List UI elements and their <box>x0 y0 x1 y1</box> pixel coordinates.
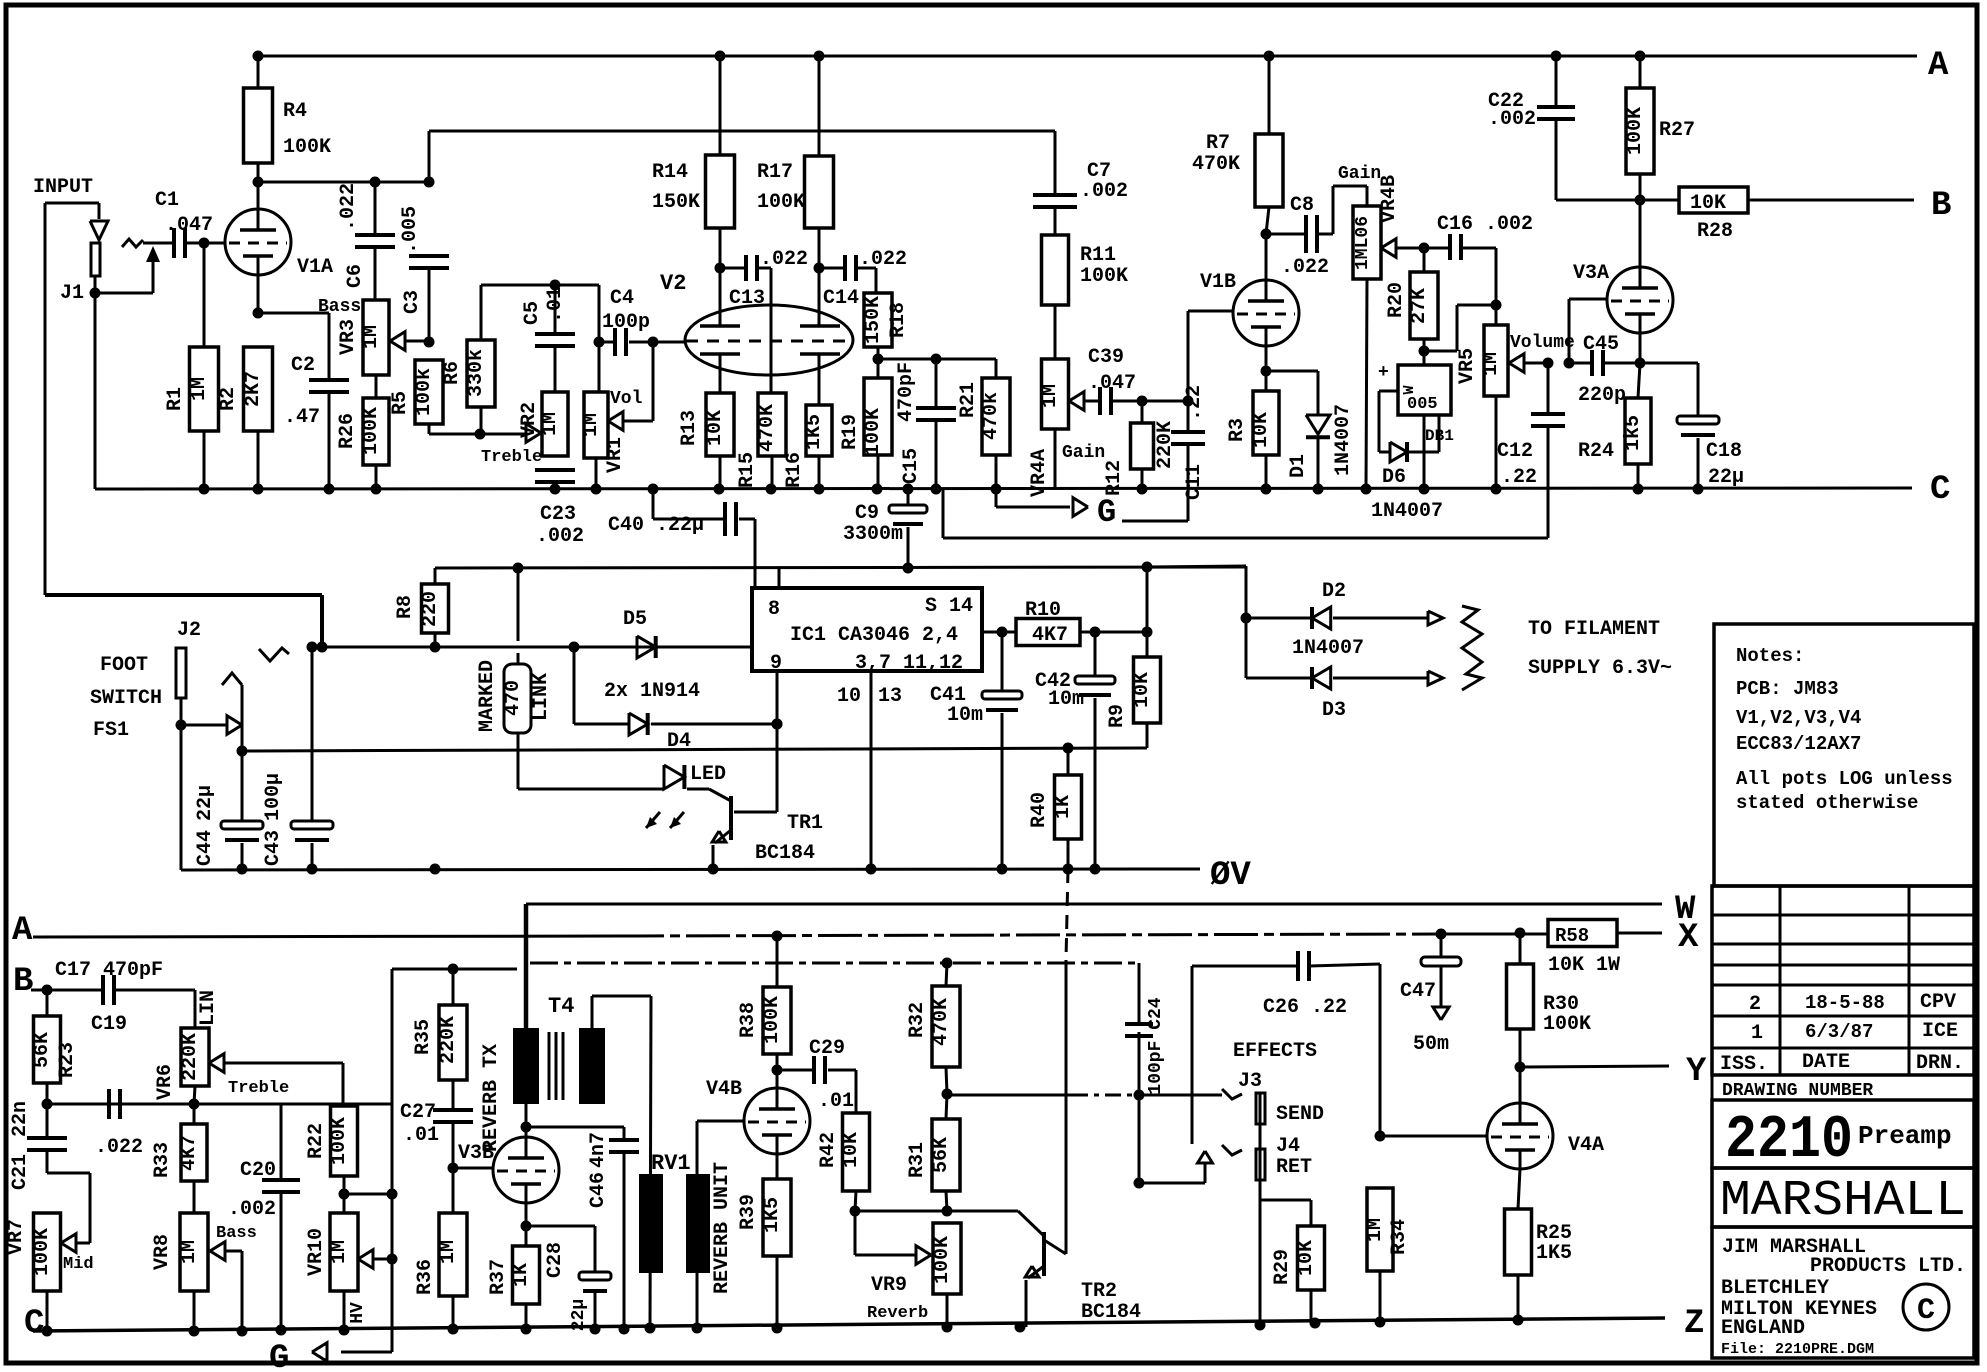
svg-text:C15: C15 <box>900 448 923 484</box>
resistor R18 150K <box>864 293 892 347</box>
svg-text:.022: .022 <box>760 248 808 271</box>
svg-text:4n7: 4n7 <box>587 1132 610 1168</box>
svg-text:R22: R22 <box>305 1123 328 1159</box>
svg-text:V1,V2,V3,V4: V1,V2,V3,V4 <box>1736 707 1861 729</box>
transistor TR1 BC184 <box>709 789 731 801</box>
capacitor C19 .022 <box>107 1089 111 1119</box>
svg-text:D5: D5 <box>623 608 647 631</box>
svg-text:1M: 1M <box>188 377 211 401</box>
svg-text:R42: R42 <box>817 1132 840 1168</box>
capacitor C2 .47 <box>328 313 331 380</box>
drawing number 2210 Preamp <box>1712 1100 1974 1168</box>
pot wiper VR8 ground return <box>241 1251 244 1331</box>
svg-text:C20: C20 <box>240 1159 276 1182</box>
svg-text:1M: 1M <box>539 412 562 436</box>
wire V1B cathode node <box>1265 345 1268 371</box>
svg-text:R36: R36 <box>414 1259 437 1295</box>
triode V4A <box>1487 1103 1553 1169</box>
svg-text:1M: 1M <box>328 1240 351 1264</box>
pot VR4A 1M Gain <box>1042 359 1069 429</box>
wire C26 right to V4A grid <box>1379 964 1382 1136</box>
svg-text:1ML06: 1ML06 <box>1353 216 1373 270</box>
capacitor C22 .002 <box>1555 56 1558 107</box>
svg-text:1M: 1M <box>437 1240 460 1264</box>
svg-text:D2: D2 <box>1322 580 1346 603</box>
pot VR7 100K Mid <box>34 1213 61 1291</box>
wire R4 bottom to V1A plate <box>257 163 260 209</box>
svg-text:150K: 150K <box>652 191 700 214</box>
svg-text:.002: .002 <box>1080 180 1128 203</box>
resistor R4 100K <box>244 88 273 163</box>
svg-text:.01: .01 <box>544 287 567 323</box>
svg-text:D3: D3 <box>1322 699 1346 722</box>
resistor R39 1K5 <box>776 1154 779 1179</box>
wire elbow x=429 up to y=131 line <box>428 131 431 182</box>
resistor R2 2K7 <box>244 347 273 431</box>
wire R8 line (y=568) <box>435 567 1246 568</box>
svg-text:1N4007: 1N4007 <box>1332 404 1355 476</box>
svg-text:100p: 100p <box>602 311 650 334</box>
capacitor C6 .022 <box>374 182 377 235</box>
svg-text:R38: R38 <box>737 1002 760 1038</box>
resistor R22 100K <box>331 1106 358 1176</box>
svg-text:100K: 100K <box>931 1236 954 1284</box>
LED arrows <box>646 812 660 828</box>
svg-text:10K: 10K <box>1295 1240 1318 1276</box>
0V line <box>181 869 1200 870</box>
svg-text:2x 1N914: 2x 1N914 <box>604 680 700 703</box>
capacitor C7 .002 <box>1033 193 1077 197</box>
svg-text:.01: .01 <box>403 1124 439 1147</box>
svg-text:R13: R13 <box>678 410 701 446</box>
svg-text:C9: C9 <box>855 502 879 525</box>
svg-text:.047: .047 <box>165 214 213 237</box>
svg-text:Bass: Bass <box>216 1224 257 1243</box>
svg-text:TO FILAMENT: TO FILAMENT <box>1528 618 1660 641</box>
resistor R30 100K <box>1519 933 1522 964</box>
svg-text:R5: R5 <box>389 391 412 415</box>
svg-text:J2: J2 <box>177 619 201 642</box>
svg-text:Volume: Volume <box>1510 333 1575 353</box>
svg-text:A: A <box>12 912 33 950</box>
resistor R28 10K bus B <box>1640 199 1679 202</box>
svg-text:100K: 100K <box>1080 265 1128 288</box>
svg-text:2210: 2210 <box>1725 1107 1853 1175</box>
svg-text:C17 470pF: C17 470pF <box>55 959 163 982</box>
wire R21 to G arrow <box>995 455 998 507</box>
svg-text:W: W <box>1401 385 1418 394</box>
svg-text:100k: 100k <box>413 368 436 416</box>
svg-text:J3: J3 <box>1238 1070 1262 1093</box>
svg-text:50m: 50m <box>1413 1033 1449 1056</box>
svg-text:HV: HV <box>348 1302 368 1324</box>
svg-text:220K: 220K <box>437 1016 460 1064</box>
wire HT reverb feed (y=969) <box>392 968 517 971</box>
bus W line <box>526 903 1662 906</box>
capacitor C5 .01 <box>554 285 557 334</box>
svg-text:C4: C4 <box>610 287 634 310</box>
svg-text:C16 .002: C16 .002 <box>1437 213 1533 236</box>
svg-text:VR9: VR9 <box>871 1274 907 1297</box>
svg-text:D4: D4 <box>667 730 691 753</box>
svg-text:C13: C13 <box>729 287 765 310</box>
svg-text:100K: 100K <box>1624 107 1647 155</box>
triode V4B <box>744 1088 810 1154</box>
svg-text:VR10: VR10 <box>305 1228 328 1276</box>
resistor R15 470K <box>758 393 786 456</box>
svg-text:22n: 22n <box>9 1101 32 1137</box>
svg-text:R33: R33 <box>151 1142 174 1178</box>
svg-text:C14: C14 <box>823 287 859 310</box>
triode V3B <box>493 1137 559 1203</box>
svg-text:6/3/87: 6/3/87 <box>1805 1021 1873 1043</box>
svg-text:R16: R16 <box>783 452 806 488</box>
svg-text:R27: R27 <box>1659 119 1695 142</box>
svg-text:100K: 100K <box>761 996 784 1044</box>
svg-text:4K7: 4K7 <box>178 1135 201 1171</box>
svg-text:R8: R8 <box>394 595 417 619</box>
svg-text:Preamp: Preamp <box>1858 1121 1952 1151</box>
svg-text:100µ: 100µ <box>262 773 285 821</box>
svg-text:.002: .002 <box>536 525 584 548</box>
svg-text:220K: 220K <box>179 1033 202 1081</box>
svg-text:100pF C24: 100pF C24 <box>1146 997 1166 1094</box>
svg-text:Z: Z <box>1684 1305 1704 1343</box>
svg-text:VR6: VR6 <box>154 1064 177 1100</box>
svg-text:R7: R7 <box>1206 132 1230 155</box>
svg-text:1K5: 1K5 <box>1536 1242 1572 1265</box>
svg-text:stated otherwise: stated otherwise <box>1736 792 1918 814</box>
svg-text:V1B: V1B <box>1200 271 1236 294</box>
resistor R11 100K <box>1042 235 1069 305</box>
svg-text:470K: 470K <box>1192 153 1240 176</box>
svg-text:R24: R24 <box>1578 440 1614 463</box>
svg-text:1M: 1M <box>580 413 603 437</box>
wire IC1 output 2,4 (y=632) <box>982 631 1016 634</box>
svg-text:R26: R26 <box>336 413 359 449</box>
svg-text:INPUT: INPUT <box>33 176 93 199</box>
svg-text:22µ: 22µ <box>194 785 217 821</box>
svg-text:100K: 100K <box>757 191 805 214</box>
svg-text:C: C <box>1917 1294 1935 1328</box>
svg-text:C18: C18 <box>1706 440 1742 463</box>
wire C40 to IC1 pin8 <box>754 519 757 588</box>
svg-text:4K7: 4K7 <box>1032 624 1068 647</box>
svg-text:2K7: 2K7 <box>242 371 265 407</box>
svg-text:C27: C27 <box>400 1101 436 1124</box>
svg-text:MARKED: MARKED <box>476 660 499 732</box>
resistor R19 100K <box>877 359 880 378</box>
resistor R36 1M <box>439 1213 467 1296</box>
svg-text:470K: 470K <box>930 998 953 1046</box>
svg-text:.22: .22 <box>1183 385 1206 421</box>
wire R42/VR9 node <box>855 1210 1018 1213</box>
capacitor C45 220p <box>1569 362 1592 365</box>
svg-text:LED: LED <box>690 763 726 786</box>
resistor R42 10K <box>843 1113 870 1191</box>
svg-text:TR1: TR1 <box>787 812 823 835</box>
wire IC1 pins 10,13 to 0V <box>870 671 873 868</box>
svg-text:J1: J1 <box>60 282 84 305</box>
filament squiggle <box>1462 606 1482 690</box>
svg-text:C21: C21 <box>9 1154 32 1190</box>
svg-text:18-5-88: 18-5-88 <box>1805 992 1885 1014</box>
capacitor C16 .002 <box>1424 247 1450 250</box>
svg-text:C47: C47 <box>1400 980 1436 1003</box>
svg-text:R12: R12 <box>1103 460 1126 496</box>
wire V3A cathode node <box>1639 332 1642 363</box>
svg-text:100K: 100K <box>31 1228 54 1276</box>
svg-text:1M: 1M <box>178 1240 201 1264</box>
svg-text:C: C <box>1930 471 1950 509</box>
svg-text:LIN: LIN <box>197 990 220 1026</box>
svg-text:470k: 470k <box>980 392 1003 440</box>
capacitor C14 .022 <box>819 267 845 270</box>
resistor R13 10K <box>706 393 734 456</box>
capacitor C43 100u <box>312 646 322 648</box>
MARSHALL logo <box>1712 1168 1974 1227</box>
address box <box>1712 1227 1974 1358</box>
svg-text:R20: R20 <box>1385 282 1408 318</box>
svg-text:VR7: VR7 <box>5 1219 28 1255</box>
wire RV1 output to V4B grid <box>696 1121 699 1328</box>
svg-text:C3: C3 <box>401 290 424 314</box>
svg-text:8: 8 <box>768 598 780 621</box>
wire R4 top to bus A <box>257 56 260 88</box>
notes box <box>1714 624 1974 886</box>
resistor R35 220K <box>452 969 455 1005</box>
svg-text:1M: 1M <box>360 325 383 349</box>
svg-text:ISS.: ISS. <box>1720 1053 1768 1076</box>
svg-text:R1: R1 <box>164 387 187 411</box>
svg-text:10K: 10K <box>1690 192 1726 215</box>
triode V1A <box>225 209 291 275</box>
svg-text:C2: C2 <box>291 354 315 377</box>
svg-text:100K: 100K <box>328 1117 351 1165</box>
wire effects line (y=1095) <box>947 1094 1072 1097</box>
svg-text:150K: 150K <box>862 296 885 344</box>
svg-text:R37: R37 <box>487 1259 510 1295</box>
svg-text:27K: 27K <box>1408 288 1431 324</box>
svg-text:.022: .022 <box>1281 256 1329 279</box>
capacitor C24 100pF <box>1138 963 1141 1024</box>
svg-text:R15: R15 <box>736 452 759 488</box>
resistor R24 1k5 <box>1638 363 1640 398</box>
resistor R23 56K <box>46 990 49 1016</box>
svg-text:TR2: TR2 <box>1081 1280 1117 1303</box>
resistor R21 470k <box>995 359 998 378</box>
svg-text:R39: R39 <box>737 1194 760 1230</box>
svg-text:R34: R34 <box>1388 1219 1411 1255</box>
svg-text:R29: R29 <box>1271 1249 1294 1285</box>
svg-text:VR4B: VR4B <box>1378 175 1401 223</box>
wire reverb mix line (y=962) <box>530 962 1139 965</box>
wire IC1 pin 9 to D4/TR1 <box>776 671 779 812</box>
capacitor C39 .047 <box>1083 400 1100 403</box>
svg-text:470pF: 470pF <box>895 362 918 422</box>
svg-text:R18: R18 <box>887 302 910 338</box>
diode D6 1N4007 <box>1379 390 1398 393</box>
svg-text:W: W <box>1675 891 1696 929</box>
svg-text:Vol: Vol <box>610 389 643 409</box>
svg-text:R35: R35 <box>412 1019 435 1055</box>
bus Z line <box>33 1318 1665 1331</box>
wire V3B cathode <box>525 1203 528 1246</box>
svg-text:Gain: Gain <box>1338 164 1381 184</box>
resistor R26 100K <box>375 375 378 398</box>
svg-text:1M: 1M <box>1039 384 1062 408</box>
svg-text:.005: .005 <box>399 206 422 254</box>
svg-text:R28: R28 <box>1697 220 1733 243</box>
svg-text:BLETCHLEY: BLETCHLEY <box>1721 1277 1829 1300</box>
svg-text:ICE: ICE <box>1922 1020 1958 1043</box>
wire V3A grid <box>1568 299 1571 363</box>
svg-text:CPV: CPV <box>1920 991 1956 1014</box>
resistor R17 100K <box>818 56 821 156</box>
svg-text:VR8: VR8 <box>151 1234 174 1270</box>
wire VR2 wiper from R5 <box>480 433 526 436</box>
svg-text:.047: .047 <box>1088 372 1136 395</box>
svg-text:C1: C1 <box>155 189 179 212</box>
svg-text:100K: 100K <box>360 407 383 455</box>
svg-text:V1A: V1A <box>297 256 333 279</box>
svg-text:A: A <box>1928 47 1949 85</box>
svg-text:1N4007: 1N4007 <box>1371 500 1443 523</box>
svg-text:2: 2 <box>1749 993 1761 1016</box>
resistor R32 470K <box>946 963 947 986</box>
IC1 CA3046 <box>752 588 982 671</box>
resistor R3 10K <box>1265 371 1268 391</box>
svg-text:VR5: VR5 <box>1456 348 1479 384</box>
svg-text:J4: J4 <box>1276 1135 1300 1158</box>
resistor R6 330k <box>480 285 483 340</box>
resistor R20 27K <box>1423 248 1426 272</box>
capacitor C18 22u <box>1640 362 1698 365</box>
svg-text:.22: .22 <box>1501 466 1537 489</box>
svg-text:.022: .022 <box>337 183 360 231</box>
triode V1B <box>1233 280 1299 346</box>
wire plate node to C6/C3 (y=182) <box>258 181 429 184</box>
svg-text:C: C <box>24 1305 44 1343</box>
svg-text:VR2: VR2 <box>518 402 541 438</box>
bus A (HT rail top) <box>258 55 1917 58</box>
wire C26 left to J4 switch <box>1191 966 1194 1144</box>
svg-text:R9: R9 <box>1106 704 1129 728</box>
svg-text:220: 220 <box>419 591 442 627</box>
svg-text:C29: C29 <box>809 1037 845 1060</box>
drawing number box <box>1712 1075 1974 1100</box>
capacitor C15 470pF <box>935 359 938 408</box>
svg-text:C19: C19 <box>91 1013 127 1036</box>
capacitor C11 .22 <box>1183 396 1194 407</box>
wire y=131 line to C7 <box>429 130 1055 133</box>
capacitor C44 22u <box>241 751 244 821</box>
resistor R31 56K <box>946 1094 947 1119</box>
svg-text:File: 2210PRE.DGM: File: 2210PRE.DGM <box>1721 1341 1874 1358</box>
capacitor C12 .22 <box>1547 363 1550 414</box>
svg-text:100K: 100K <box>1543 1013 1591 1036</box>
svg-text:REVERB TX: REVERB TX <box>480 1044 503 1152</box>
svg-text:+: + <box>1378 363 1389 383</box>
svg-text:Gain: Gain <box>1062 443 1105 463</box>
svg-text:R40: R40 <box>1028 792 1051 828</box>
svg-text:G: G <box>1097 494 1116 531</box>
pot VR9 100K Reverb <box>933 1223 961 1294</box>
resistor R25 1K5 <box>1518 1169 1520 1209</box>
capacitor C28 22u <box>526 1225 595 1228</box>
svg-text:1K: 1K <box>1052 795 1075 819</box>
resistor R8 220 <box>434 568 437 584</box>
svg-text:10K: 10K <box>1250 412 1273 448</box>
resistor R7 470K <box>1268 56 1271 134</box>
svg-text:.002: .002 <box>1488 108 1536 131</box>
svg-text:R31: R31 <box>906 1142 929 1178</box>
wire R6 top to C5 node <box>481 284 599 287</box>
svg-text:EFFECTS: EFFECTS <box>1233 1040 1317 1063</box>
svg-text:220p: 220p <box>1578 384 1626 407</box>
wire C19 line (y=1104) <box>47 1103 392 1106</box>
svg-text:R14: R14 <box>652 161 688 184</box>
capacitor C42 10m <box>1094 632 1097 676</box>
svg-text:.022: .022 <box>859 248 907 271</box>
wire J2 tip down to 0V <box>180 725 183 870</box>
svg-text:FOOT: FOOT <box>100 654 148 677</box>
svg-text:C43: C43 <box>262 830 285 866</box>
svg-text:1M: 1M <box>1364 1218 1387 1242</box>
transistor TR2 BC184 <box>1018 1211 1044 1236</box>
resistor R34 1M <box>1367 1188 1393 1271</box>
capacitor C8 .022 <box>1266 233 1306 236</box>
svg-text:56K: 56K <box>930 1137 953 1173</box>
svg-text:B: B <box>1931 187 1951 225</box>
svg-text:R3: R3 <box>1226 418 1249 442</box>
resistor R27 100K <box>1639 56 1642 88</box>
svg-text:1: 1 <box>1751 1022 1763 1045</box>
resistor R12 220K <box>1141 401 1144 423</box>
svg-text:Treble: Treble <box>481 448 542 467</box>
resistor R1 1M <box>190 347 219 431</box>
capacitor C29 .01 <box>777 1069 814 1072</box>
svg-text:.47: .47 <box>284 406 320 429</box>
diode D1 1N4007 <box>1266 370 1318 373</box>
resistor R14 150K <box>719 56 722 155</box>
svg-text:56K: 56K <box>31 1032 54 1068</box>
svg-text:S 14: S 14 <box>925 595 973 618</box>
capacitor C46 4n7 <box>526 1126 624 1129</box>
link 470 MARKED LINK <box>517 568 520 641</box>
svg-text:MARSHALL: MARSHALL <box>1720 1173 1966 1230</box>
svg-text:DRN.: DRN. <box>1916 1052 1964 1075</box>
svg-text:10K: 10K <box>1131 672 1154 708</box>
svg-text:LINK: LINK <box>530 673 553 721</box>
capacitor C41 10m <box>1001 632 1004 691</box>
svg-text:10K: 10K <box>840 1132 863 1168</box>
svg-text:RET: RET <box>1276 1156 1312 1179</box>
wire T4 secondary to RV1 <box>591 996 594 1028</box>
svg-text:DRAWING NUMBER: DRAWING NUMBER <box>1722 1081 1873 1101</box>
svg-text:22µ: 22µ <box>569 1299 589 1331</box>
wire R18 bottom node <box>878 358 996 361</box>
svg-text:330k: 330k <box>465 349 488 397</box>
resistor R33 4K7 <box>193 1104 196 1124</box>
svg-text:ECC83/12AX7: ECC83/12AX7 <box>1736 733 1861 755</box>
svg-text:R10: R10 <box>1025 599 1061 622</box>
svg-text:R4: R4 <box>283 100 307 123</box>
capacitor C23 .002 <box>535 468 575 472</box>
footswitch FS1 wiper <box>181 724 228 727</box>
svg-text:V4B: V4B <box>706 1078 742 1101</box>
svg-text:470K: 470K <box>756 404 779 452</box>
